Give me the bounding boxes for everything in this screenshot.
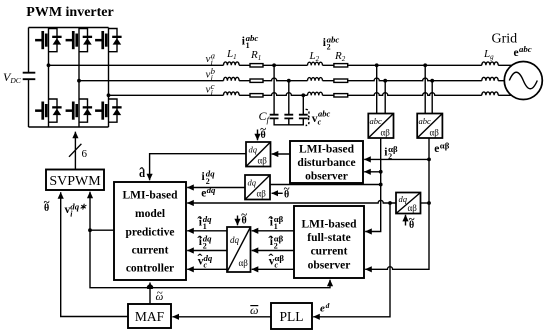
inductor Lg phase b (482, 77, 498, 80)
svg-text:~: ~ (260, 124, 266, 136)
svg-text:ˆ: ˆ (197, 252, 202, 268)
switch S3 (66, 28, 93, 51)
svg-text:current: current (132, 245, 169, 257)
wire i1hat dq (187, 230, 227, 232)
wire vchat dq (187, 268, 227, 270)
wire d hat to controller (150, 154, 246, 181)
inductor L1 phase c (224, 92, 240, 95)
tap i2 line a (376, 65, 378, 113)
svg-text:αβ: αβ (440, 141, 450, 151)
wire i1hat ab (252, 230, 294, 232)
svg-text:current: current (311, 246, 348, 258)
svg-text:abc: abc (419, 116, 432, 126)
node phase c tap (107, 93, 111, 97)
node ed branch (388, 201, 392, 205)
svg-text:1: 1 (203, 222, 207, 231)
svg-text:dq: dq (207, 185, 216, 195)
inverter bottom rail (29, 126, 109, 128)
wire eab to disturbance observer (364, 158, 429, 160)
wire i2hat ab (252, 250, 294, 252)
LMI disturbance observer block (290, 141, 363, 183)
svg-text:i: i (211, 88, 213, 97)
svg-text:6: 6 (82, 148, 88, 160)
wire pll to maf (172, 316, 271, 318)
switch S6 (95, 99, 122, 122)
wire observer to box1 (272, 153, 290, 155)
wire i2ab into box2 (271, 184, 381, 186)
svg-text:e: e (514, 47, 519, 59)
wire phase a (49, 64, 512, 66)
svg-text:αβ: αβ (408, 203, 418, 213)
inverter leg a (48, 28, 50, 128)
inductor L2 phase c (308, 92, 323, 95)
inductor Lg phase a (482, 62, 498, 65)
wire i2ab to disturbance observer (364, 171, 381, 173)
svg-text:dq: dq (230, 235, 240, 245)
node i2 to dq (379, 183, 383, 187)
full state observer block (294, 206, 364, 278)
svg-text:~: ~ (284, 183, 290, 195)
theta annotation box3 (405, 215, 407, 226)
wire eab vertical (365, 138, 429, 269)
resistor R2 phase b (334, 79, 348, 82)
svg-text:SVPWM: SVPWM (49, 174, 101, 189)
wire eab into box3 (421, 202, 429, 204)
inductor L2 phase a (308, 62, 323, 65)
svg-text:disturbance: disturbance (297, 157, 355, 169)
node cap b (287, 79, 291, 83)
inverter leg c (108, 28, 110, 128)
svg-text:αβ: αβ (381, 128, 391, 138)
abc-ab transform block i2 (368, 114, 393, 139)
wire edq to controller (187, 200, 396, 203)
svg-text:αβ: αβ (257, 189, 267, 199)
svg-text:Grid: Grid (492, 32, 518, 47)
inductor L1 phase a (224, 62, 240, 65)
switch S5 (95, 28, 122, 51)
dq-ab block i2 (box2) (245, 175, 270, 200)
wire theta to svpwm (61, 192, 128, 316)
node cap c (301, 93, 305, 97)
svg-text:dq∗: dq∗ (70, 202, 87, 212)
svg-text:PWM inverter: PWM inverter (26, 5, 113, 20)
capacitor branch c (302, 95, 304, 114)
controller block (114, 182, 186, 280)
svg-text:1: 1 (246, 41, 250, 50)
wire vi to observer bottom (90, 230, 330, 288)
svg-text:abc: abc (519, 44, 532, 54)
node i2 to observer (379, 170, 383, 174)
svg-text:LMI-based: LMI-based (302, 219, 358, 231)
MAF block (128, 304, 171, 328)
svg-text:c: c (275, 261, 279, 270)
node cap a (272, 63, 276, 67)
capacitor VDC (23, 73, 36, 80)
svg-text:ˆ: ˆ (268, 215, 273, 231)
capacitor Cf b (284, 115, 293, 119)
wire vi ref (90, 192, 114, 231)
node tap e b (430, 79, 434, 83)
wire i2ab vertical (365, 138, 381, 232)
resistor R2 phase a (334, 64, 348, 67)
tap i2 line b (384, 81, 386, 114)
svg-text:2: 2 (203, 242, 207, 251)
sine glyph (509, 72, 537, 89)
svg-text:αβ: αβ (430, 128, 440, 138)
svg-text:~: ~ (44, 197, 50, 209)
svg-text:αβ: αβ (239, 258, 249, 268)
slash 6 (69, 144, 81, 157)
svg-text:PLL: PLL (279, 309, 303, 324)
svg-text:d: d (326, 301, 330, 310)
svg-text:ˆ: ˆ (268, 234, 273, 250)
brace vc dashed (306, 109, 311, 125)
abc-ab transform block e (417, 114, 442, 139)
svg-text:c: c (318, 118, 322, 127)
inverter leg b (78, 28, 80, 128)
inductor Lg phase c (482, 92, 498, 95)
dq-ab block e (box3) (396, 193, 421, 214)
capacitor Cf c (299, 115, 308, 119)
node tap i2 a (375, 63, 379, 67)
wire omega tilde (149, 283, 151, 305)
svg-text:model: model (135, 208, 165, 220)
svg-text:LMI-based: LMI-based (123, 190, 179, 202)
svg-text:full-state: full-state (307, 232, 350, 244)
inverter top rail (29, 27, 109, 29)
svg-text:~: ~ (241, 209, 247, 221)
wire ed to PLL (313, 203, 390, 317)
svg-text:~: ~ (409, 214, 415, 226)
theta annotation box1 (257, 130, 259, 141)
inductor L2 phase b (308, 78, 323, 81)
svg-text:LMI-based: LMI-based (299, 144, 355, 156)
node phase a tap (47, 63, 51, 67)
svg-text:~: ~ (157, 287, 163, 299)
svg-text:observer: observer (308, 260, 351, 272)
wire vchat ab (252, 268, 294, 270)
svg-text:c: c (204, 261, 208, 270)
svg-text:predictive: predictive (126, 227, 175, 239)
svg-text:2: 2 (274, 242, 278, 251)
resistor R2 phase c (334, 94, 348, 97)
wire phase c (109, 93, 512, 96)
wire i2hat dq (187, 250, 227, 252)
tap e line a (424, 65, 426, 113)
resistor R1 phase a (250, 64, 263, 67)
theta annotation box2 (272, 192, 283, 194)
capacitor Cf a (270, 115, 279, 119)
dq-ab block big (box4) (227, 227, 251, 272)
wire i2dq to controller (187, 187, 245, 189)
grid ac source (504, 62, 542, 100)
svg-text:ˆ: ˆ (197, 234, 202, 250)
resistor R1 phase b (250, 79, 263, 82)
capacitor branch b (288, 81, 290, 115)
capacitor branch a (273, 65, 275, 114)
switch S4 (66, 99, 93, 122)
wire cap bottom bus (274, 118, 303, 124)
wire svpwm to inverter (74, 132, 76, 170)
PLL block (271, 303, 312, 329)
switch S1 (35, 28, 62, 51)
dq-ab block d (box1) (246, 142, 271, 167)
node e to observer (427, 158, 431, 162)
wire phase b (79, 78, 504, 81)
svg-text:αβ: αβ (258, 156, 268, 166)
node vi ref (88, 228, 92, 232)
SVPWM block (46, 170, 104, 191)
tap e line b (431, 81, 433, 114)
theta annotation box4 (237, 216, 239, 226)
node phase b tap (77, 79, 81, 83)
svg-text:ˆ: ˆ (197, 215, 202, 231)
dc bus left rail (28, 28, 30, 128)
node tap e a (423, 63, 427, 67)
svg-text:observer: observer (305, 171, 348, 183)
node e to dq3 (427, 201, 431, 205)
svg-text:abc: abc (370, 116, 383, 126)
svg-text:e: e (434, 143, 439, 155)
inductor L1 phase b (224, 77, 240, 80)
switch S2 (35, 99, 62, 122)
node tap i2 b (383, 79, 387, 83)
svg-text:2: 2 (327, 43, 331, 52)
svg-text:dq: dq (399, 194, 408, 204)
svg-text:1: 1 (274, 222, 278, 231)
svg-text:controller: controller (126, 263, 174, 275)
svg-text:MAF: MAF (135, 309, 165, 324)
resistor R1 phase c (250, 94, 263, 97)
svg-text:ˆ: ˆ (268, 252, 273, 268)
svg-text:ˆ: ˆ (139, 166, 144, 182)
svg-text:dq: dq (249, 145, 258, 155)
svg-text:dq: dq (248, 178, 257, 188)
svg-text:e: e (320, 302, 325, 314)
